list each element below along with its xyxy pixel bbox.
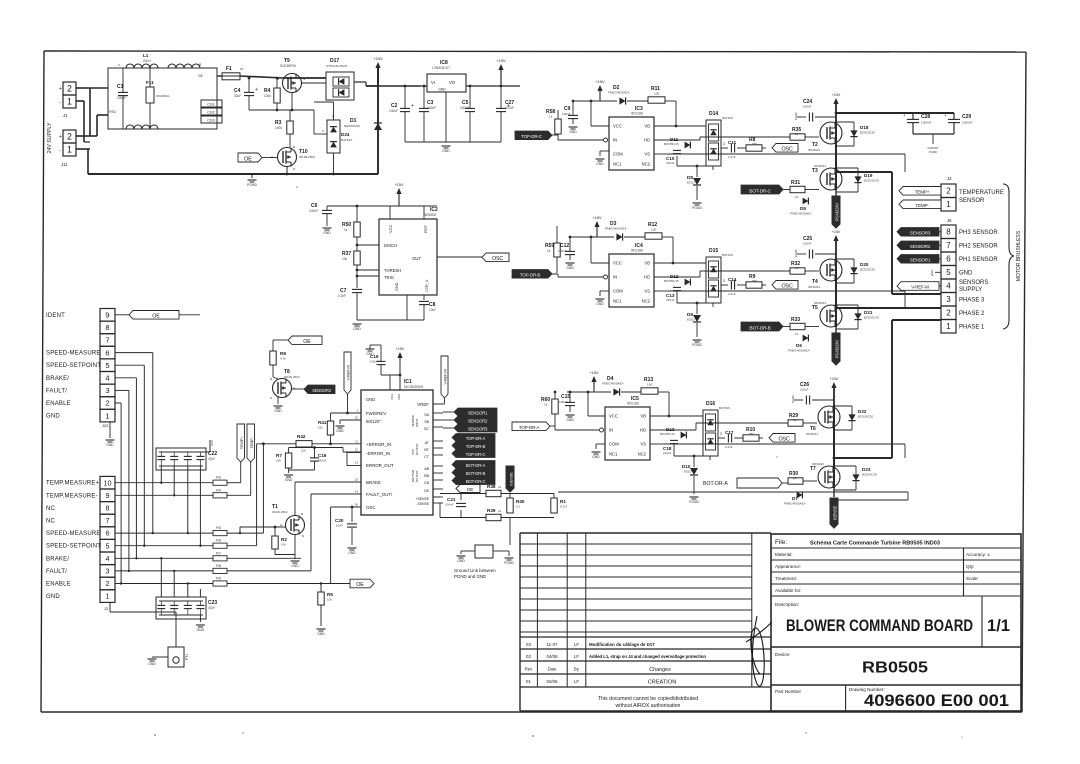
svg-text:GND: GND [285,478,293,482]
svg-text:GND: GND [197,628,205,632]
svg-text:5: 5 [106,541,110,550]
svg-text:PGND: PGND [692,206,702,210]
svg-text:10k: 10k [276,459,281,463]
svg-text:PHASE 2: PHASE 2 [959,311,985,317]
svg-text:DISCH: DISCH [384,243,397,248]
svg-text:100nF: 100nF [370,360,379,364]
svg-text:14: 14 [355,490,359,494]
svg-text:SENSOR2: SENSOR2 [468,418,488,423]
svg-text:HO: HO [644,138,651,143]
svg-text:D19: D19 [864,173,873,178]
svg-text:24V SUPPLY: 24V SUPPLY [47,122,53,153]
svg-text:LF: LF [574,654,579,659]
svg-text:SENSORS: SENSORS [959,280,988,286]
svg-text:S: S [302,534,304,538]
svg-text:OSC: OSC [492,256,503,262]
svg-text:R2: R2 [281,537,287,542]
svg-text:IN: IN [613,138,617,143]
svg-text:8: 8 [946,228,951,237]
svg-text:GND: GND [438,88,446,92]
svg-text:5: 5 [946,268,951,277]
svg-text:2.2nF: 2.2nF [728,292,736,296]
svg-text:47pF: 47pF [208,457,215,461]
svg-text:GND: GND [317,632,325,636]
svg-text:SA: SA [424,413,429,417]
svg-text:D16: D16 [706,401,715,407]
svg-text:FI3: FI3 [216,476,221,480]
svg-text:100k: 100k [275,126,282,130]
svg-text:FI9: FI9 [216,577,221,581]
svg-text:+24V: +24V [832,93,841,97]
svg-text:COM: COM [613,152,623,157]
svg-text:10k: 10k [281,543,286,547]
svg-text:GND: GND [291,564,299,568]
svg-text:D23: D23 [862,467,871,472]
svg-text:4096600 E00 001: 4096600 E00 001 [864,691,1009,710]
svg-text:FAULT/: FAULT/ [46,569,67,575]
svg-text:D15: D15 [709,248,718,254]
svg-text:TEMP+: TEMP+ [239,436,244,449]
svg-text:RB0505: RB0505 [862,660,928,677]
svg-text:BZV55C15: BZV55C15 [664,142,679,146]
svg-text:HO: HO [644,275,651,280]
svg-text:D22: D22 [858,409,867,414]
svg-text:BZV55C15: BZV55C15 [660,432,675,436]
svg-text:TEMPERATURE: TEMPERATURE [959,190,1004,196]
svg-text:Schéma Carte Commande Turbine: Schéma Carte Commande Turbine RB0505 IND… [810,541,940,547]
svg-text:1000uF: 1000uF [921,121,932,125]
svg-text:L78M15CDT: L78M15CDT [432,66,450,70]
svg-text:IR2118S: IR2118S [627,402,639,406]
svg-text:1k: 1k [498,485,502,489]
svg-text:CT: CT [424,455,430,459]
svg-text:Appearance:: Appearance: [775,564,801,569]
svg-text:PGND24V: PGND24V [835,203,840,222]
svg-text:+: + [255,87,258,93]
svg-text:TEMP-: TEMP- [249,436,254,448]
svg-text:SUPPLY: SUPPLY [959,287,982,293]
svg-text:SENSOR: SENSOR [959,198,985,204]
svg-text:J22: J22 [102,423,109,428]
svg-text:+15V: +15V [596,80,605,84]
svg-text:OUT: OUT [412,256,421,261]
svg-text:F1: F1 [226,66,232,72]
svg-text:4: 4 [946,282,951,291]
svg-text:FWD/REV: FWD/REV [366,411,386,416]
svg-text:S: S [293,167,295,171]
svg-text:NC: NC [46,506,56,512]
svg-text:OSC: OSC [366,505,376,510]
svg-text:GND: GND [210,440,214,446]
svg-text:R39: R39 [487,508,496,513]
svg-text:SENSOR3: SENSOR3 [910,231,931,236]
svg-text:Date: Date [548,667,558,672]
svg-text:OE: OE [356,582,364,588]
svg-text:THRESH: THRESH [384,268,401,273]
svg-text:C21: C21 [447,497,456,502]
svg-text:FSG: FSG [109,110,116,114]
svg-text:22uH: 22uH [143,59,151,63]
svg-text:1k: 1k [547,249,551,253]
svg-text:Available for:: Available for: [775,588,801,593]
svg-text:FI4: FI4 [216,488,221,492]
svg-text:IN: IN [613,275,617,280]
svg-text:02/06: 02/06 [547,679,559,684]
svg-text:D9: D9 [687,312,693,317]
svg-text:01: 01 [526,679,531,684]
svg-text:IRFR024: IRFR024 [812,462,824,466]
svg-text:10: 10 [795,266,799,270]
svg-text:PGND: PGND [504,561,514,565]
svg-text:PT1: PT1 [185,654,189,660]
svg-text:4: 4 [106,554,110,563]
svg-text:OSC: OSC [778,437,789,443]
svg-text:PGND: PGND [247,183,257,187]
svg-text:100nF: 100nF [559,400,568,404]
svg-text:2: 2 [106,579,110,588]
svg-text:10: 10 [795,132,799,136]
svg-text:2: 2 [105,399,109,408]
svg-text:LF: LF [574,642,579,647]
svg-text:D10: D10 [682,464,691,469]
svg-text:ERROR_OUT: ERROR_OUT [366,463,394,468]
svg-text:FI5: FI5 [216,526,221,530]
svg-text:OE: OE [303,339,311,345]
svg-text:100nF: 100nF [460,106,469,110]
svg-text:PGND24V: PGND24V [835,340,840,359]
svg-text:330nF: 330nF [318,459,327,463]
svg-text:100nF: 100nF [803,105,812,109]
svg-text:100nF: 100nF [117,96,126,100]
svg-text:C16: C16 [318,453,327,458]
svg-text:PGND: PGND [929,150,937,154]
svg-text:100nF: 100nF [427,106,436,110]
svg-text:NC2: NC2 [642,299,651,304]
svg-text:2.2nF: 2.2nF [728,155,736,159]
svg-text:6: 6 [946,255,951,264]
svg-text:SUD50P06: SUD50P06 [280,64,296,68]
svg-text:GND: GND [569,130,577,134]
svg-text:SPEED-SETPOINT: SPEED-SETPOINT [46,544,101,550]
svg-text:OE: OE [152,314,160,320]
svg-text:FI6: FI6 [216,539,221,543]
svg-text:BZG03C30: BZG03C30 [862,473,877,477]
svg-text:SPEED-SETPOINT: SPEED-SETPOINT [46,363,101,369]
svg-text:Material:: Material: [775,552,793,557]
svg-text:IRLML2502: IRLML2502 [284,375,300,379]
svg-text:ENABLE: ENABLE [46,401,71,407]
svg-text:BOT-DR-A: BOT-DR-A [703,481,728,487]
svg-text:Treatment:: Treatment: [775,576,797,581]
svg-text:IRFR024: IRFR024 [814,164,826,168]
svg-text:J6: J6 [947,218,952,223]
svg-text:TEMP-: TEMP- [915,203,929,208]
svg-text:BT: BT [424,448,429,452]
svg-text:PGND: PGND [791,395,795,403]
svg-text:1: 1 [105,411,109,420]
svg-text:TEMP.MEASURE-: TEMP.MEASURE- [46,493,98,499]
svg-text:E51D: E51D [684,470,692,474]
svg-text:100: 100 [651,228,656,232]
svg-text:GND: GND [336,429,344,433]
svg-text:Part Number: Part Number [775,689,802,694]
svg-text:22k: 22k [318,426,323,430]
svg-text:C20: C20 [335,518,344,523]
svg-text:4: 4 [105,374,109,383]
svg-text:IRFR024: IRFR024 [808,148,820,152]
svg-text:IRLML2502: IRLML2502 [272,510,288,514]
svg-text:D24: D24 [341,132,350,137]
svg-text:100nF: 100nF [558,249,567,253]
svg-text:VCA: VCA [390,394,394,400]
svg-text:PH2 SENSOR: PH2 SENSOR [959,244,998,250]
svg-text:TEMP+: TEMP+ [915,190,930,195]
svg-text:2: 2 [67,132,72,142]
svg-text:2: 2 [946,187,951,196]
svg-text:D7: D7 [792,496,798,501]
svg-text:1000uF: 1000uF [962,121,973,125]
svg-text:Rev: Rev [525,667,533,672]
svg-text:-SENSE: -SENSE [416,502,429,506]
svg-text:RST: RST [423,224,428,233]
svg-text:C8: C8 [198,74,202,78]
svg-text:BRAKE/: BRAKE/ [46,556,69,562]
svg-text:VCC: VCC [609,414,618,419]
svg-text:SPEED-MEASURE: SPEED-MEASURE [46,351,101,357]
svg-text:BZG03C30: BZG03C30 [860,268,875,272]
svg-text:10: 10 [793,418,797,422]
svg-text:without AIROX authorisation: without AIROX authorisation [616,703,681,709]
svg-text:PHASE 3: PHASE 3 [959,298,985,304]
svg-text:Added L1, strap on J4 and chan: Added L1, strap on J4 and changed overvo… [589,654,706,659]
svg-text:OSC: OSC [781,147,792,153]
svg-text:SENSOR3: SENSOR3 [468,426,488,431]
svg-text:680: 680 [752,279,757,283]
svg-text:D20: D20 [860,262,869,267]
svg-text:Accuracy: ±: Accuracy: ± [966,552,990,557]
svg-text:PGND: PGND [689,500,699,504]
svg-text:E51D: E51D [687,318,695,322]
svg-text:ISENSE: ISENSE [509,472,514,486]
svg-text:GND: GND [274,409,282,413]
svg-text:V-REF-M: V-REF-M [911,285,929,290]
svg-text:5: 5 [105,361,109,370]
svg-text:PHASE 1: PHASE 1 [959,325,985,331]
svg-text:R8: R8 [280,351,286,356]
svg-text:SENSOR1: SENSOR1 [468,410,488,415]
svg-text:SC: SC [424,427,429,431]
svg-text:R5: R5 [327,592,333,597]
svg-text:220nF: 220nF [666,161,675,165]
svg-text:NC1: NC1 [609,452,618,457]
svg-text:HO: HO [640,428,647,433]
svg-text:+24V: +24V [830,377,839,381]
svg-text:TRIG: TRIG [384,275,394,280]
svg-text:IN: IN [609,428,613,433]
svg-text:1k: 1k [544,403,548,407]
svg-text:100nF: 100nF [445,503,454,507]
svg-text:T5: T5 [812,305,818,311]
svg-text:T7: T7 [810,466,816,472]
svg-text:1: 1 [67,97,72,107]
svg-text:10k: 10k [342,257,348,261]
svg-text:BOT-DR-B: BOT-DR-B [466,471,486,476]
svg-text:GND: GND [46,594,60,600]
svg-text:100nF: 100nF [309,209,318,213]
svg-text:AB: AB [424,467,429,471]
svg-text:1k: 1k [498,509,502,513]
svg-text:IRFR024: IRFR024 [814,301,826,305]
svg-text:470uF: 470uF [505,106,514,110]
svg-text:+: + [944,113,947,118]
svg-text:NC2: NC2 [638,452,647,457]
svg-text:220pF: 220pF [663,451,672,455]
svg-text:D14: D14 [709,111,718,117]
svg-text:+: + [411,103,414,109]
svg-text:100: 100 [647,383,652,387]
svg-text:VB: VB [644,261,650,266]
svg-text:PMEG4005AEA: PMEG4005AEA [602,382,624,386]
svg-text:10: 10 [793,476,797,480]
svg-text:OE: OE [244,156,252,162]
svg-text:TOP-DR-C: TOP-DR-C [466,452,486,457]
svg-text:PGND: PGND [794,112,798,120]
svg-text:1: 1 [106,592,110,601]
svg-text:VB: VB [644,124,650,129]
svg-text:04/06: 04/06 [547,654,559,659]
svg-text:+15V: +15V [396,347,405,351]
svg-text:R40: R40 [516,499,525,504]
svg-text:60/120°: 60/120° [366,419,381,424]
svg-text:R7: R7 [276,453,282,458]
svg-text:220nF: 220nF [666,298,675,302]
svg-text:10: 10 [795,332,799,336]
svg-text:GND: GND [592,455,600,459]
svg-text:FAULT/: FAULT/ [46,388,67,394]
svg-text:GND: GND [366,397,375,402]
svg-text:6: 6 [105,348,109,357]
svg-text:10k: 10k [301,449,306,453]
svg-text:OUTPUT: OUTPUT [415,443,419,455]
svg-text:3: 3 [723,279,725,283]
svg-text:VI: VI [431,80,435,85]
svg-text:R33: R33 [791,317,800,323]
svg-text:680: 680 [752,142,757,146]
svg-text:+: + [59,134,62,140]
svg-text:NC1: NC1 [613,299,622,304]
svg-text:0.1: 0.1 [516,505,521,509]
svg-text:BOT-DR-B: BOT-DR-B [749,325,770,331]
svg-text:PMEG4005AEA: PMEG4005AEA [788,349,810,353]
svg-text:1k: 1k [549,115,553,119]
svg-text:VO: VO [449,80,456,85]
svg-text:10: 10 [795,195,799,199]
svg-text:3: 3 [106,566,110,575]
svg-text:C11: C11 [728,140,737,145]
svg-text:IPA082S1: IPA082S1 [156,94,170,98]
svg-text:VS: VS [644,152,650,157]
svg-text:+ERROR_IN: +ERROR_IN [366,442,391,447]
svg-text:CREATION: CREATION [648,680,677,686]
svg-text:VCC: VCC [613,124,622,129]
svg-text:CG3: CG3 [207,119,214,123]
svg-text:9: 9 [106,491,110,500]
svg-text:10nF: 10nF [336,524,343,528]
svg-text:0.2x7: 0.2x7 [560,505,568,509]
svg-text:MOTOR BRUSHLESS: MOTOR BRUSHLESS [1016,230,1022,281]
svg-text:OE: OE [467,487,474,493]
svg-text:8: 8 [105,323,109,332]
svg-text:VS: VS [640,442,646,447]
svg-text:33uF: 33uF [234,94,241,98]
svg-text:BOT-DR-A: BOT-DR-A [466,463,486,468]
svg-text:D8: D8 [687,175,693,180]
svg-text:TOP-DR-C: TOP-DR-C [521,134,543,139]
svg-text:C29: C29 [962,114,971,120]
svg-text:+: + [903,113,906,118]
svg-text:BOT-DR-C: BOT-DR-C [466,479,486,484]
svg-text:D6: D6 [796,343,802,348]
svg-text:+15V: +15V [395,183,404,187]
svg-text:ISENSE: ISENSE [833,506,838,521]
svg-text:100nF: 100nF [803,242,812,246]
svg-text:GND: GND [366,352,374,356]
svg-text:+24V: +24V [832,230,841,234]
svg-text:1: 1 [67,145,72,155]
svg-text:BZV55C15: BZV55C15 [664,279,679,283]
svg-text:VREF: VREF [417,402,429,407]
svg-text:BZG03C30: BZG03C30 [864,316,879,320]
svg-text:PGND and GND: PGND and GND [454,574,486,579]
svg-text:OUTPUT: OUTPUT [415,470,419,482]
svg-text:L1: L1 [143,53,149,58]
svg-text:J11: J11 [61,162,68,167]
svg-text:100nF: 100nF [800,388,809,392]
svg-text:7: 7 [105,336,109,345]
svg-text:+15V: +15V [593,216,602,220]
svg-text:GND: GND [457,559,465,563]
svg-text:TOP-DR-A: TOP-DR-A [519,425,541,430]
svg-text:Modification du câblage de D17: Modification du câblage de D17 [589,642,655,647]
svg-text:BLOWER COMMAND BOARD: BLOWER COMMAND BOARD [786,617,973,635]
svg-text:1k: 1k [344,228,348,232]
svg-text:BZG03C30: BZG03C30 [860,131,875,135]
svg-text:10: 10 [104,478,112,487]
svg-text:R1: R1 [560,499,566,504]
svg-text:GND: GND [566,418,574,422]
svg-text:BRAKE/: BRAKE/ [46,376,69,382]
svg-text:2: 2 [67,84,72,94]
svg-text:Qty:: Qty: [966,564,974,569]
svg-text:VCC: VCC [613,261,622,266]
svg-text:OSC: OSC [781,284,792,290]
svg-text:Device:: Device: [775,652,790,657]
svg-text:GND: GND [353,327,361,331]
svg-text:100: 100 [654,92,659,96]
svg-text:3: 3 [723,142,725,146]
svg-text:GND: GND [348,551,356,555]
svg-text:+15V: +15V [590,371,599,375]
svg-text:R38: R38 [487,484,496,489]
svg-text:C28: C28 [921,114,930,120]
svg-text:IR2118S: IR2118S [631,112,643,116]
svg-text:NC1: NC1 [613,162,622,167]
svg-text:680: 680 [749,432,754,436]
svg-text:TOP-DR-B: TOP-DR-B [520,273,541,278]
svg-text:VB: VB [640,414,646,419]
svg-text:+SENSE: +SENSE [416,497,430,501]
svg-text:BAT54S: BAT54S [341,138,352,142]
